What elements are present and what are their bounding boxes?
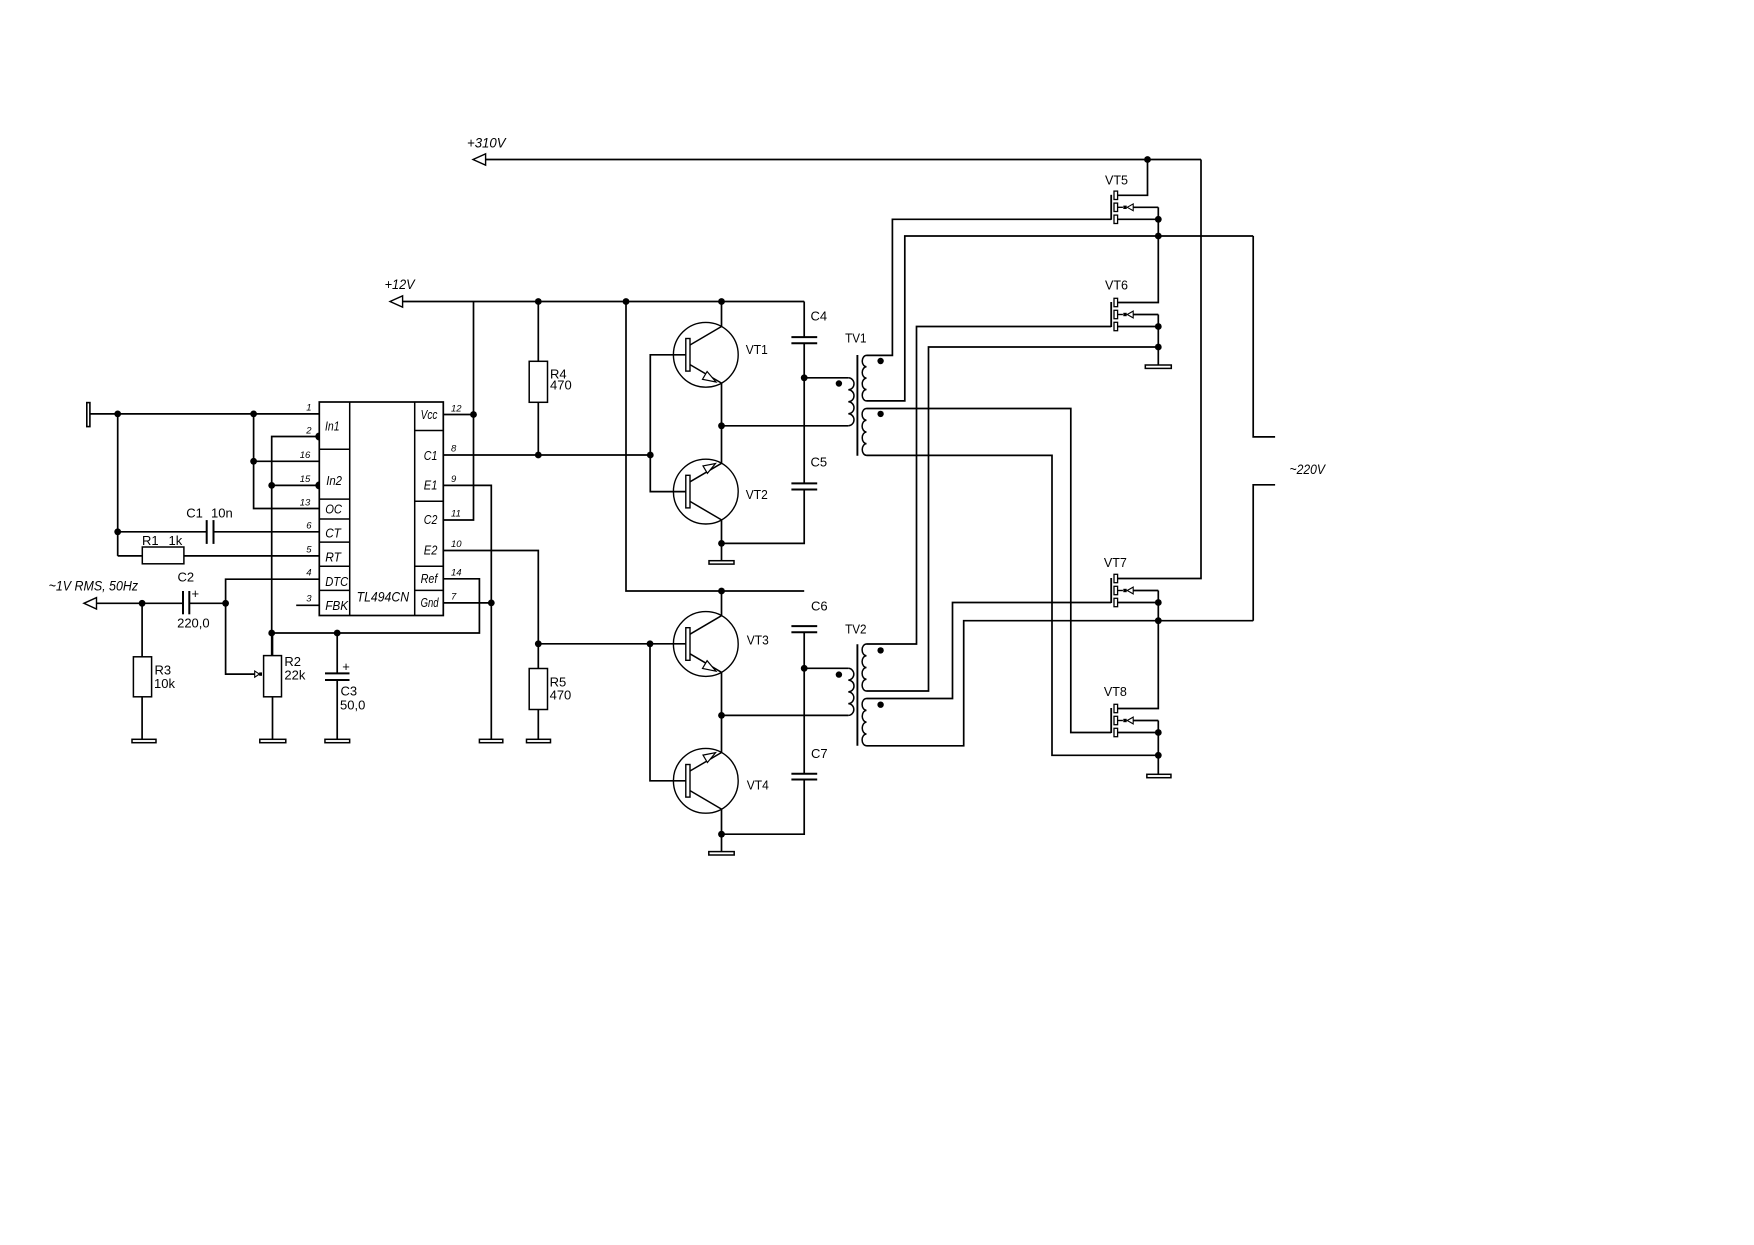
- node VT6 source: [1155, 323, 1162, 330]
- wire TV2 upper sec bottom to VT6 source node: [867, 347, 1159, 691]
- svg-text:In2: In2: [326, 473, 342, 488]
- svg-text:9: 9: [451, 474, 457, 485]
- ground VT2: [709, 561, 734, 564]
- svg-text:Vcc: Vcc: [421, 407, 438, 422]
- wire Ref bus: [272, 579, 480, 633]
- wire VT4 bottom to ground node: [721, 809, 723, 834]
- wire E1 pin 9 riser to ground: [443, 485, 491, 739]
- node rail-VT1 collector: [718, 298, 725, 305]
- wire VT7 source to half-bridge node: [1157, 603, 1159, 621]
- wire TV1 upper sec top to VT5 gate: [867, 219, 1112, 355]
- wire TV2 lower sec top to VT7 gate: [867, 603, 1112, 699]
- node VT7 source: [1155, 599, 1162, 606]
- wire R2 bottom to ground: [272, 697, 274, 740]
- node C1-R4: [535, 452, 542, 459]
- svg-text:C1: C1: [424, 448, 438, 463]
- node C4/C5-TV1 primary: [801, 374, 808, 381]
- svg-text:TV2: TV2: [845, 622, 866, 637]
- node terminal branch: [114, 411, 121, 418]
- svg-text:7: 7: [451, 592, 457, 603]
- node VT4 emitter-C7: [718, 831, 725, 838]
- wire +12V rail with left arrow: [390, 296, 804, 307]
- svg-text:In1: In1: [325, 418, 340, 433]
- node C6/C7-TV2 primary: [801, 665, 808, 672]
- node VT8 source: [1155, 729, 1162, 736]
- svg-text:VT6: VT6: [1105, 277, 1128, 292]
- wire R5 to ground: [537, 710, 539, 740]
- node rail-R4: [535, 298, 542, 305]
- transistor VT7 (MOSFET): [1104, 555, 1158, 607]
- svg-text:14: 14: [451, 568, 462, 579]
- svg-text:8: 8: [451, 444, 457, 455]
- wire VT4 ground stub: [721, 834, 723, 851]
- svg-text:C4: C4: [811, 308, 828, 323]
- wire base riser down to VT4: [650, 644, 686, 781]
- wire pin2/pin15 riser: [272, 437, 320, 656]
- wire R2 top to bus: [272, 633, 274, 656]
- wire TV1 lower sec top to VT8 gate: [867, 409, 1112, 733]
- node TV2 lower secondary phase dot: [877, 702, 883, 708]
- transistor VT8 (MOSFET): [1104, 684, 1158, 737]
- svg-text:16: 16: [300, 450, 311, 461]
- node VT2 emitter-C5: [718, 540, 725, 547]
- capacitor C5: [791, 455, 827, 490]
- svg-text:FBK: FBK: [325, 598, 349, 613]
- wire VT4 top to midpoint: [721, 715, 723, 752]
- capacitor C6: [791, 598, 827, 632]
- svg-text:TV1: TV1: [845, 331, 866, 346]
- node bus-C3: [334, 630, 341, 637]
- svg-text:VT8: VT8: [1104, 684, 1127, 699]
- wire VT2 bottom to ground node: [721, 520, 723, 544]
- svg-text:CT: CT: [325, 526, 342, 541]
- node bus-R2: [268, 630, 275, 637]
- ground VT8: [1147, 774, 1171, 777]
- resistor R1: [118, 533, 184, 564]
- wire +310V down to VT7 drain: [1118, 160, 1201, 579]
- svg-text:VT2: VT2: [746, 487, 768, 502]
- wire terminal to pin 1: [90, 413, 319, 415]
- node VT6 source-TV2: [1155, 344, 1162, 351]
- wire midpoint to TV2 primary bottom: [722, 714, 849, 716]
- wire node to TV1 primary top: [804, 377, 848, 379]
- svg-text:220,0: 220,0: [177, 615, 210, 630]
- potentiometer R2: [255, 654, 306, 697]
- svg-text:2: 2: [305, 426, 312, 437]
- node C2-DTC-wiper junction: [222, 600, 229, 607]
- wire input with left arrow: [84, 598, 183, 609]
- capacitor C7: [791, 746, 827, 780]
- svg-text:VT7: VT7: [1104, 555, 1127, 570]
- transistor VT6 (MOSFET): [1105, 277, 1158, 330]
- node Vcc junction: [470, 411, 477, 418]
- svg-text:10: 10: [451, 539, 462, 550]
- svg-text:E2: E2: [424, 542, 438, 557]
- resistor R5: [529, 669, 571, 710]
- transformer TV2 lower secondary winding: [862, 699, 866, 746]
- svg-text:R1: R1: [142, 533, 159, 548]
- svg-text:C2: C2: [424, 512, 438, 527]
- node pin1/pin16 branch: [250, 411, 257, 418]
- node Gnd-E1: [488, 600, 495, 607]
- svg-text:5: 5: [306, 544, 312, 555]
- wire R1 to RT pin 5: [184, 555, 319, 557]
- capacitor C3 (electrolytic): [325, 633, 365, 712]
- ground E1: [479, 739, 502, 742]
- wire R4 to C1 row: [537, 402, 539, 455]
- wire +12V to C4: [803, 302, 805, 338]
- wire pin16/pin13 riser: [254, 414, 320, 509]
- capacitor C4: [791, 308, 827, 343]
- node TV1 primary phase dot: [836, 380, 842, 386]
- svg-text:3: 3: [306, 594, 312, 605]
- wire VT6 ground stub: [1157, 347, 1159, 365]
- wire down to CT/R1: [117, 414, 119, 556]
- node base riser VT3/VT4: [647, 640, 654, 647]
- wire base drive VT3/VT4: [538, 643, 686, 645]
- svg-text:4: 4: [306, 568, 311, 579]
- node C1-base riser: [647, 452, 654, 459]
- wire TV1 upper sec bottom to VT5 source node: [867, 236, 1254, 401]
- ground C3: [325, 739, 350, 742]
- wire C2 to DTC junction: [189, 602, 225, 604]
- wire CT to C1: [118, 531, 207, 533]
- wire TV2 upper sec top to VT6 gate: [867, 327, 1112, 645]
- transformer TV1 primary winding: [848, 378, 854, 426]
- svg-text:+12V: +12V: [385, 276, 416, 292]
- stub FBK pin 3: [296, 604, 319, 606]
- capacitor C2 (electrolytic): [177, 570, 210, 631]
- transformer TV2 core: [856, 644, 858, 746]
- svg-text:11: 11: [451, 509, 461, 520]
- svg-text:DTC: DTC: [325, 574, 349, 589]
- wire C1 to CT pin 6: [214, 531, 320, 533]
- node VT5 source: [1155, 216, 1162, 223]
- node CT branch: [114, 528, 121, 535]
- op-amp U1 TL494CN IC body: [319, 402, 443, 616]
- svg-text:VT4: VT4: [747, 778, 769, 793]
- svg-text:E1: E1: [424, 477, 438, 492]
- transistor VT1 (NPN): [673, 322, 767, 387]
- svg-text:10n: 10n: [211, 505, 233, 520]
- wire VT8 ground stub: [1157, 755, 1159, 774]
- wire output upper terminal: [1253, 236, 1275, 437]
- svg-text:10k: 10k: [154, 676, 175, 691]
- wire midpoint to TV1 primary bottom: [722, 425, 849, 427]
- wire Vcc pin 12 to +12V riser: [443, 414, 473, 416]
- node TV1 upper secondary phase dot: [877, 358, 883, 364]
- node TV2 primary phase dot: [836, 671, 842, 677]
- wire VT6 source down: [1157, 327, 1159, 348]
- transformer TV2 primary winding: [848, 668, 854, 715]
- svg-text:TL494CN: TL494CN: [357, 589, 410, 605]
- ground VT4: [709, 852, 734, 855]
- wire VT3 emitter to midpoint: [721, 672, 723, 715]
- wire VT6 drain to node: [1118, 236, 1159, 303]
- svg-text:470: 470: [550, 688, 572, 703]
- transistor VT2 (PNP): [673, 459, 767, 524]
- node VT1/VT2 midpoint: [718, 422, 725, 429]
- transistor VT5 (MOSFET): [1105, 173, 1158, 224]
- wire VT2 top to midpoint: [721, 426, 723, 464]
- svg-text:C2: C2: [178, 570, 195, 585]
- svg-text:VT3: VT3: [747, 633, 769, 648]
- node input-R3: [139, 600, 146, 607]
- wire VT1 emitter to midpoint: [721, 383, 723, 426]
- svg-text:1k: 1k: [169, 533, 183, 548]
- wire Gnd pin 7: [443, 602, 491, 604]
- wire node to C5 bottom: [722, 490, 805, 544]
- svg-text:~220V: ~220V: [1290, 461, 1327, 477]
- svg-text:OC: OC: [325, 502, 342, 517]
- svg-text:~1V RMS, 50Hz: ~1V RMS, 50Hz: [49, 577, 139, 593]
- resistor R3: [133, 603, 175, 697]
- node VT8 source-TV1: [1155, 752, 1162, 759]
- transistor VT4 (PNP): [673, 748, 768, 813]
- wire node to C7 bottom: [722, 780, 805, 835]
- ground R3: [132, 739, 156, 742]
- node pin16 branch: [250, 458, 257, 465]
- node VT3/VT4 midpoint: [718, 712, 725, 719]
- ground R5: [527, 739, 551, 742]
- wire C4 to TV1 primary node: [803, 343, 805, 483]
- svg-text:C7: C7: [811, 746, 828, 761]
- wire VT5 source to half-bridge node: [1157, 219, 1159, 236]
- node half-bridge lower: [1155, 617, 1162, 624]
- node TV2 upper secondary phase dot: [877, 647, 883, 653]
- svg-text:RT: RT: [325, 550, 342, 565]
- svg-text:15: 15: [300, 474, 311, 485]
- svg-text:6: 6: [306, 520, 312, 531]
- wire C6 down to TV2 primary node: [803, 632, 805, 774]
- wire VT1 collector to rail: [721, 302, 723, 327]
- wire C1 pin 8 row: [443, 454, 650, 456]
- node pin 15: [315, 481, 323, 489]
- wire junction down to R2 wiper: [226, 603, 255, 674]
- svg-text:C5: C5: [811, 455, 828, 470]
- wire TV1 lower sec bottom to VT8 source: [867, 455, 1159, 755]
- svg-text:Ref: Ref: [421, 571, 439, 586]
- wire VT2 ground stub: [721, 543, 723, 560]
- node pin15 riser: [268, 482, 275, 489]
- wire C3 to ground: [336, 680, 338, 739]
- wire node to TV2 primary top: [804, 667, 848, 669]
- wire VT8 source down: [1157, 733, 1159, 756]
- svg-text:470: 470: [550, 378, 572, 393]
- wire base riser VT1/VT2: [650, 355, 686, 492]
- resistor R4: [529, 302, 572, 403]
- svg-text:Gnd: Gnd: [421, 595, 439, 610]
- transformer TV1 upper secondary winding: [862, 355, 866, 400]
- transistor VT3 (NPN): [673, 612, 768, 677]
- svg-text:C1: C1: [186, 505, 203, 520]
- wire junction up to DTC pin 4: [226, 579, 320, 603]
- transformer TV2 upper secondary winding: [862, 644, 866, 691]
- node E2-base drive: [535, 640, 542, 647]
- transformer TV1 lower secondary winding: [862, 409, 866, 456]
- node pin 2: [315, 433, 323, 441]
- wire output lower terminal: [1253, 485, 1275, 621]
- wire to pin 16: [254, 460, 320, 462]
- wire to pin 15: [272, 484, 320, 486]
- transformer TV1 core: [856, 355, 858, 456]
- ground R2: [260, 739, 286, 742]
- node TV1 lower secondary phase dot: [877, 411, 883, 417]
- svg-text:VT1: VT1: [746, 342, 768, 357]
- svg-text:1: 1: [306, 403, 311, 414]
- svg-text:+: +: [192, 586, 200, 601]
- wire R3 to ground: [141, 697, 143, 740]
- svg-text:22k: 22k: [284, 667, 305, 682]
- svg-text:C6: C6: [811, 598, 828, 613]
- svg-text:+: +: [342, 659, 350, 674]
- svg-text:+310V: +310V: [467, 135, 507, 151]
- node +310V junction to VT5 drain: [1144, 156, 1151, 163]
- svg-text:50,0: 50,0: [340, 697, 365, 712]
- svg-text:12: 12: [451, 404, 462, 415]
- node half-bridge upper: [1155, 233, 1162, 240]
- wire Vcc riser to C2 pin 11: [443, 302, 473, 521]
- wire +12V riser to VT3 collector rail: [626, 302, 804, 592]
- node rail-VT3 feed: [623, 298, 630, 305]
- capacitor C1: [186, 505, 233, 544]
- svg-text:13: 13: [300, 497, 311, 508]
- wire TV2 lower sec bottom to VT7 source node: [867, 621, 1254, 746]
- wire VT3 collector: [721, 591, 723, 616]
- wire E2 pin 10 riser: [443, 551, 538, 669]
- svg-text:VT5: VT5: [1105, 173, 1128, 188]
- node VT3 collector feed: [718, 588, 725, 595]
- wire VT8 drain to node: [1118, 621, 1159, 709]
- input terminal bar: [87, 403, 90, 427]
- ground VT6: [1145, 365, 1171, 368]
- wire VT5 drain feed: [1118, 160, 1148, 196]
- wire +310V rail with left arrow: [473, 154, 1201, 165]
